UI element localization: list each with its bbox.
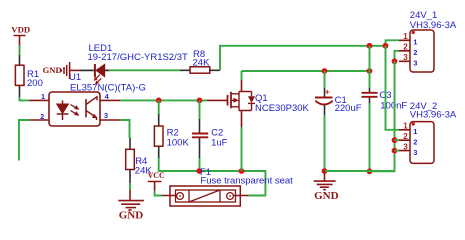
svg-text:1: 1 [413,38,417,47]
resistor R4 [126,138,153,183]
wire [159,158,266,196]
wire [120,120,130,138]
ground (under C1) [314,171,339,202]
svg-text:NCE30P30K: NCE30P30K [255,103,310,114]
svg-text:GND: GND [119,210,144,222]
junction [367,168,373,174]
resistor R2 [154,114,189,158]
junction [392,58,398,64]
connector 24V_2 [399,101,457,164]
junction [322,68,328,74]
optocoupler U1 [30,72,146,126]
wire [220,46,386,71]
junction [239,168,245,174]
wire [199,100,201,119]
svg-text:19-217/GHC-YR1S2/3T: 19-217/GHC-YR1S2/3T [88,52,189,63]
svg-text:3: 3 [413,59,417,68]
wire [370,61,395,171]
svg-text:2: 2 [40,112,44,121]
svg-text:VH3.96-3A: VH3.96-3A [410,110,457,121]
junction [322,168,328,174]
wire [386,40,400,46]
junction [156,98,162,104]
wire [242,70,370,72]
wire [324,71,326,88]
junction [196,168,202,174]
wire [158,100,160,114]
svg-text:2: 2 [413,48,417,57]
wire [324,115,326,171]
svg-text:VCC: VCC [148,171,165,180]
svg-text:220uF: 220uF [335,103,362,114]
capacitor C1 [315,87,362,116]
wire [395,140,400,150]
junction [367,68,373,74]
wire [129,183,131,190]
svg-text:EL357N(C)(TA)-G: EL357N(C)(TA)-G [70,83,146,94]
junction [392,137,398,143]
svg-text:1: 1 [403,32,408,41]
svg-text:3: 3 [403,143,408,152]
wire [325,170,395,172]
svg-text:GND: GND [314,190,339,202]
svg-text:200: 200 [27,78,43,89]
wire [20,97,30,100]
fuse F1 [162,186,248,206]
svg-text:1: 1 [403,122,408,131]
svg-text:24K: 24K [193,58,211,69]
svg-text:1uF: 1uF [211,137,228,148]
svg-text:Fuse transparent seat: Fuse transparent seat [200,176,293,187]
wire [120,99,207,101]
svg-text:100K: 100K [167,137,190,148]
wire [109,69,180,71]
wire [19,45,21,55]
wire [386,46,400,130]
capacitor C2 [192,119,228,158]
wire [199,158,201,171]
resistor R8 [180,49,220,73]
junction [392,148,398,154]
svg-text:+: + [325,87,330,97]
svg-text:3: 3 [413,148,417,157]
wire [395,51,400,62]
transistor Q1 [207,80,310,127]
wire [369,46,371,88]
svg-text:3: 3 [104,111,108,120]
wire [369,103,371,171]
svg-text:2: 2 [413,138,417,147]
wire [19,120,30,161]
junction [197,98,203,104]
power port VCC [148,171,165,191]
LED LED1 [80,43,188,85]
junction [383,43,389,49]
power port GND (left) [43,62,80,79]
resistor R1 [15,55,42,97]
wire [241,71,243,171]
connector 24V_1 [399,10,457,72]
svg-text:U1: U1 [69,72,81,83]
svg-text:GND: GND [43,65,62,75]
svg-text:2: 2 [403,132,408,141]
capacitor C3 [362,88,408,112]
ground (under R4) [118,190,144,222]
svg-text:2: 2 [403,43,408,52]
svg-text:1: 1 [41,92,45,101]
svg-text:3: 3 [403,53,408,62]
junction [367,43,373,49]
power port VDD [11,24,30,45]
wire [155,191,162,196]
svg-text:VDD: VDD [11,24,30,34]
svg-text:1: 1 [413,127,417,136]
